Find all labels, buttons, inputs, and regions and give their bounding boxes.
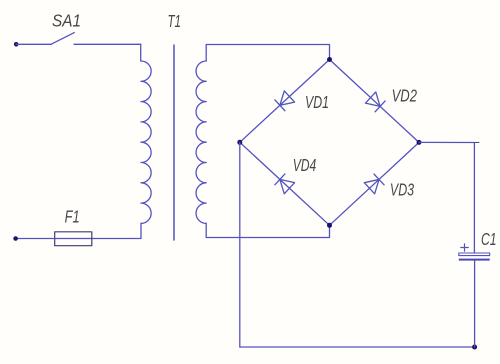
wire: primary bottom lead (92, 223, 141, 238)
wire: capacitor top to bridge right corner (419, 142, 474, 253)
diode VD1 (275, 91, 295, 111)
diode VD4 (275, 174, 295, 194)
switch SA1 blade (51, 33, 74, 45)
node: input terminal top (14, 42, 19, 47)
diode VD3 (364, 174, 384, 194)
wire: corner overshoot tick (474, 142, 479, 144)
wire: switch to transformer primary (74, 43, 141, 45)
wire: fuse right lead (55, 238, 92, 240)
wire: fuse to input terminal bottom (16, 238, 55, 240)
wire: secondary top lead to bridge top (206, 45, 329, 62)
svg-text:VD1: VD1 (305, 92, 329, 112)
node: bridge right corner (417, 140, 422, 145)
node: input terminal bottom (13, 236, 18, 241)
wire: bridge edge top-right (330, 60, 420, 143)
wire: bridge edge bottom-right (330, 142, 420, 225)
wire: secondary bottom lead to bridge bottom (206, 223, 329, 237)
wire: bridge edge bottom-left (240, 142, 330, 225)
svg-text:F1: F1 (65, 207, 80, 227)
node: bridge top corner (327, 57, 332, 62)
svg-text:VD2: VD2 (392, 86, 418, 106)
node: bridge bottom corner (327, 223, 332, 228)
fuse F1 body (55, 232, 92, 246)
wire: bridge left corner down to bottom rail (239, 142, 241, 347)
transformer T1 core (173, 45, 175, 240)
svg-text:SA1: SA1 (52, 11, 81, 31)
wire: rail up to capacitor (474, 261, 476, 347)
svg-text:VD4: VD4 (293, 155, 317, 175)
capacitor C1 top plate (459, 253, 490, 256)
node: bottom rail right corner (472, 345, 477, 350)
svg-text:C1: C1 (481, 229, 497, 249)
capacitor C1 bottom plate (459, 259, 490, 261)
node: bridge left corner (237, 140, 242, 145)
wire: primary top lead (140, 44, 142, 61)
wire: bridge edge top-left (240, 60, 330, 143)
diode VD2 (365, 92, 385, 112)
svg-text:VD3: VD3 (390, 180, 414, 200)
wire: input to switch (16, 43, 51, 45)
transformer T1 secondary winding (196, 61, 206, 223)
svg-text:T1: T1 (168, 11, 182, 31)
capacitor C1 plus sign (461, 244, 469, 251)
wire: bottom rail (240, 346, 475, 348)
transformer T1 primary winding (141, 61, 151, 223)
